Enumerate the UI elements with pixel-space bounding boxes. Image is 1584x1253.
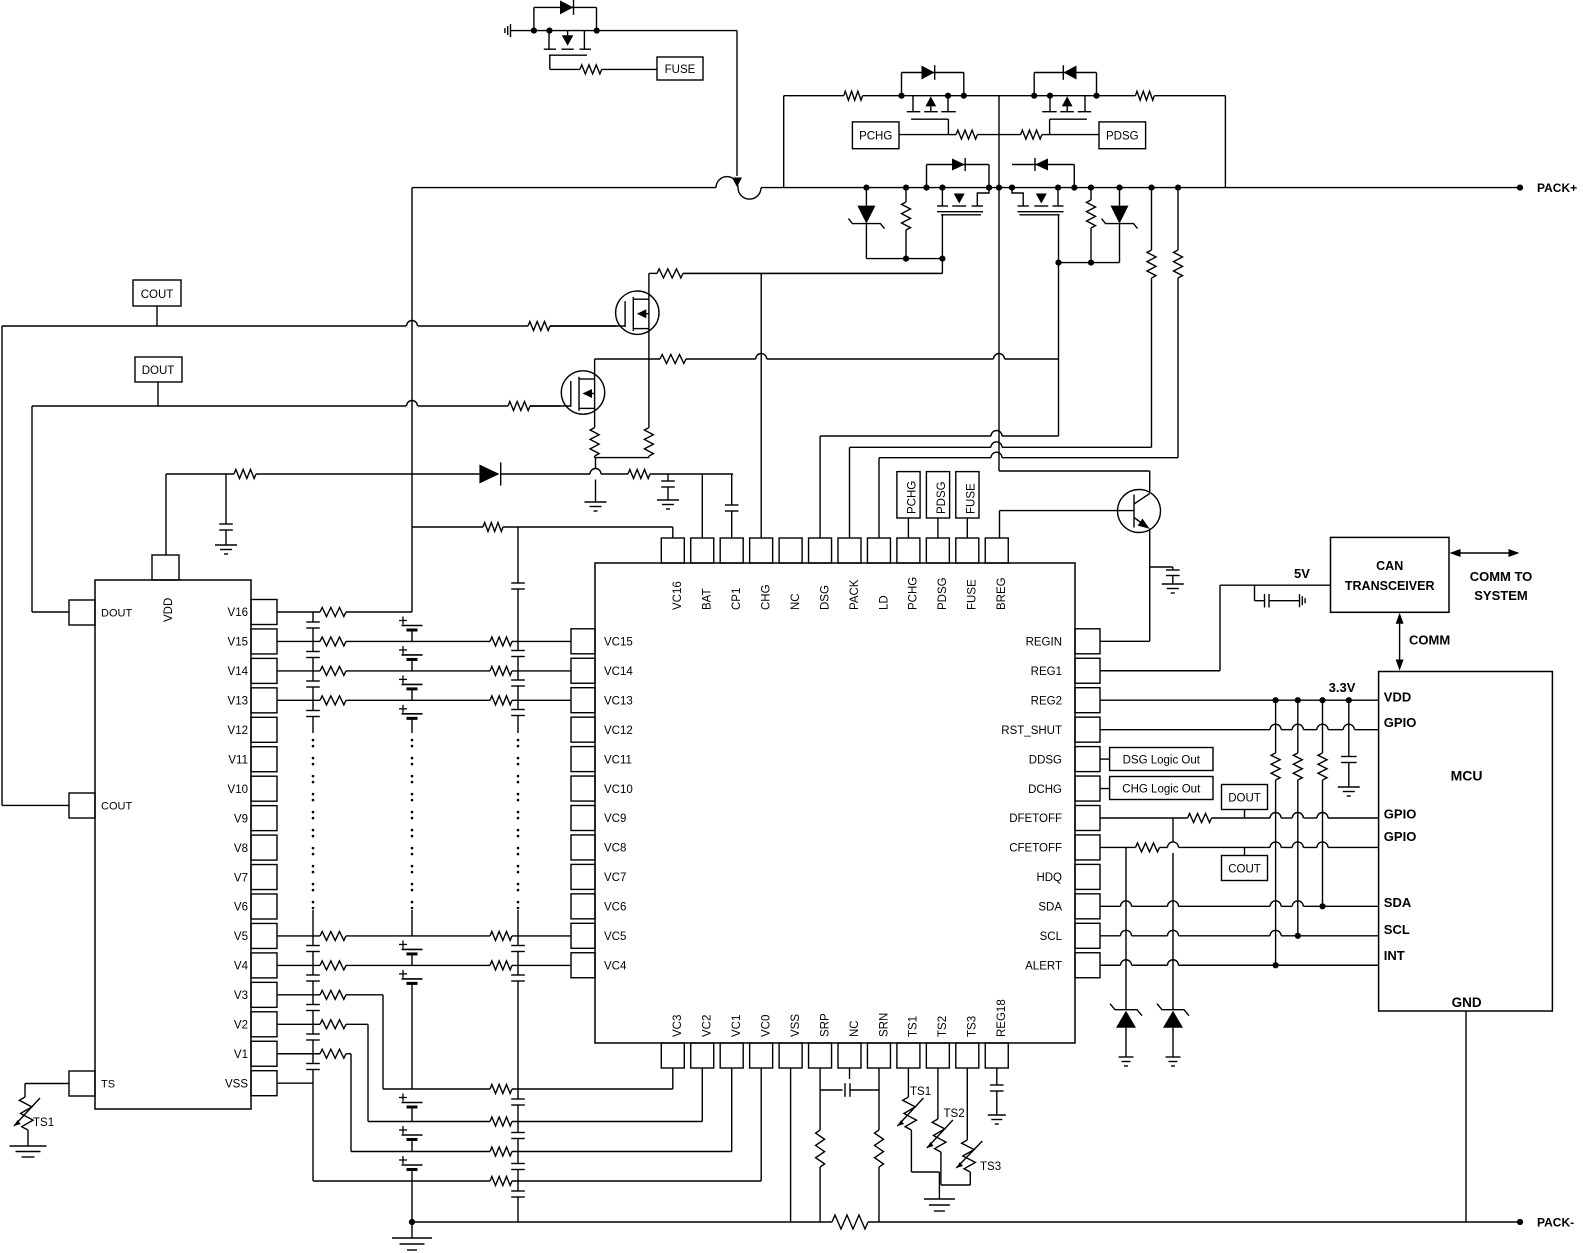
node center rail junction [996, 185, 1002, 191]
svg-text:VSS: VSS [790, 1014, 802, 1037]
resistor R38 SRN filter [875, 1130, 884, 1167]
pin BREG top [985, 538, 1008, 610]
wire RST_SHUT to MCU GPIO [1100, 724, 1379, 729]
diode D1 across fuse FET [534, 0, 597, 31]
svg-text:VC3: VC3 [672, 1015, 684, 1037]
pin VC3 bottom [661, 1015, 684, 1068]
wire BAT pin drop [701, 474, 703, 538]
resistor R29 VC4 [490, 961, 512, 970]
resistor R42 pullup [1318, 700, 1327, 906]
pin V16 left-chip [228, 600, 277, 625]
svg-text:TS1: TS1 [910, 1086, 931, 1098]
svg-text:V5: V5 [234, 931, 248, 943]
svg-text:TS: TS [101, 1079, 115, 1091]
resistor R11 DOUT gate [508, 402, 530, 411]
svg-text:GPIO: GPIO [1384, 829, 1417, 844]
svg-text:PACK: PACK [849, 579, 861, 610]
svg-text:CP1: CP1 [731, 588, 743, 610]
FUSE pin off-page label [956, 472, 979, 538]
CHG Logic Out label [1100, 777, 1213, 800]
svg-text:V9: V9 [234, 813, 248, 825]
pin TS2 bottom [926, 1016, 949, 1068]
diode D6 reverse protect [479, 462, 500, 485]
wire BREG base line [1000, 511, 1135, 538]
wire fuse FET drain to PACK+ rail with arrow [732, 31, 742, 187]
svg-text:PCHG: PCHG [859, 131, 892, 143]
resistor R32 V2 filter [320, 1020, 346, 1029]
wire DOUT line [32, 382, 560, 406]
svg-text:SYSTEM: SYSTEM [1474, 588, 1527, 603]
capacitor C12 VC13-VC12 [511, 700, 525, 733]
resistor R44 CFETOFF [1136, 843, 1160, 852]
capacitor C13 V5-V4 [306, 936, 320, 965]
battery cell B9 [399, 1156, 423, 1222]
wire PDSG gate [1050, 119, 1099, 134]
capacitor C16 V2-V1 [306, 1024, 320, 1053]
wire PACK pin line [850, 442, 1152, 538]
svg-text:REGIN: REGIN [1026, 637, 1062, 649]
capacitor C15 V3-V2 [306, 995, 320, 1024]
svg-text:VC15: VC15 [604, 637, 633, 649]
PDSG pin off-page label [926, 472, 949, 538]
pin DCHG right [1028, 776, 1100, 801]
pin SRN bottom [867, 1013, 890, 1068]
pin NC bottom stub [849, 1068, 851, 1079]
pin V15 left-chip [228, 629, 277, 654]
svg-text:V12: V12 [228, 725, 248, 737]
svg-text:ALERT: ALERT [1025, 960, 1062, 972]
svg-text:COUT: COUT [101, 801, 132, 813]
capacitor C5 V16-V15 [306, 612, 320, 641]
svg-text:V10: V10 [228, 784, 248, 796]
wire DFETOFF to MCU GPIO [1100, 813, 1379, 818]
ground COUT/DOUT source [585, 502, 607, 511]
svg-text:VSS: VSS [225, 1078, 248, 1090]
resistor R8 PACK sense [1147, 185, 1156, 448]
pin V2 left-chip [234, 1012, 277, 1037]
wire V2 line jog [277, 1024, 702, 1121]
ground 5V cap [1300, 594, 1306, 607]
resistor R26 V5 filter [320, 931, 346, 940]
svg-text:TS1: TS1 [908, 1016, 920, 1037]
pin PCHG top [897, 538, 920, 610]
wire V1 line jog [277, 1054, 732, 1152]
svg-text:REG1: REG1 [1031, 666, 1062, 678]
pin DOUT left-chip [69, 600, 132, 625]
wire DSG gate node [1055, 215, 1119, 266]
pin V13 left-chip [228, 688, 277, 713]
ground VDD cap [1338, 787, 1360, 796]
svg-text:MCU: MCU [1451, 768, 1483, 784]
pin REGIN right [1026, 629, 1100, 654]
capacitor C10 VC15-VC14 [511, 641, 525, 670]
pin V7 left-chip [234, 865, 277, 890]
COUT off-page label right [1222, 847, 1268, 880]
svg-text:SDA: SDA [1384, 895, 1412, 910]
ground battery negative [392, 1222, 432, 1250]
svg-text:SCL: SCL [1384, 922, 1410, 937]
svg-text:RST_SHUT: RST_SHUT [1001, 725, 1062, 737]
pin TS left-chip [69, 1071, 115, 1096]
svg-text:CAN: CAN [1376, 559, 1403, 573]
svg-text:VDD: VDD [163, 598, 175, 622]
pin NC bottom [838, 1020, 861, 1068]
svg-text:GND: GND [1452, 995, 1482, 1010]
diode D4 precharge bypass left [923, 158, 992, 191]
svg-text:V4: V4 [234, 961, 249, 973]
resistor R36 VC0 [490, 1177, 512, 1186]
pin VC0 bottom [750, 1015, 773, 1068]
pin PDSG top [926, 538, 949, 610]
capacitor C2 VDD filter [219, 474, 233, 545]
pin TS3 bottom [956, 1016, 979, 1068]
capacitor C9 VC16-VC15 [511, 527, 525, 641]
wire dotted column left [312, 740, 315, 908]
svg-text:VC5: VC5 [604, 931, 626, 943]
PDSG off-page label [1099, 122, 1146, 149]
DOUT off-page label [135, 357, 182, 382]
resistor R25 VC13 [490, 696, 512, 705]
svg-text:GPIO: GPIO [1384, 715, 1417, 730]
pin RST_SHUT right [1001, 717, 1100, 742]
svg-text:COUT: COUT [141, 289, 174, 301]
pin BAT top [691, 538, 714, 610]
pin VC16 top [661, 538, 684, 610]
svg-text:DSG: DSG [819, 585, 831, 610]
svg-text:V15: V15 [228, 637, 248, 649]
pin V10 left-chip [228, 776, 277, 801]
pin VC4 left [571, 953, 627, 978]
pin FUSE top [956, 538, 979, 610]
wire DSG pin line [820, 263, 1058, 538]
resistor R21 V14 filter [320, 666, 346, 675]
battery cell B2 [399, 646, 423, 671]
svg-text:PCHG: PCHG [907, 481, 919, 514]
pin VC1 bottom [720, 1015, 743, 1068]
pin DFETOFF right [1009, 806, 1100, 831]
wire VDD pin drop [165, 474, 167, 555]
resistor R16 VDD [234, 470, 256, 479]
capacitor C17 V1-VSS [306, 1054, 320, 1083]
pin V5 left-chip [234, 923, 277, 948]
wire COUT line [2, 306, 616, 326]
resistor R43 DFETOFF [1188, 814, 1212, 823]
svg-text:V3: V3 [234, 990, 248, 1002]
svg-text:DOUT: DOUT [101, 608, 132, 620]
battery cell B1 [399, 617, 423, 642]
svg-text:TS1: TS1 [33, 1117, 54, 1129]
wire predischarge loop right down to rail [1224, 96, 1226, 188]
svg-text:DOUT: DOUT [1228, 793, 1261, 805]
wire collector from rail [999, 188, 1150, 492]
pin V8 left-chip [234, 835, 277, 860]
svg-text:TRANSCEIVER: TRANSCEIVER [1345, 579, 1435, 593]
svg-text:VC7: VC7 [604, 872, 626, 884]
pin COUT left-chip [69, 793, 132, 818]
pin DSG top [809, 538, 832, 610]
resistor R20 V15 filter [320, 637, 346, 646]
svg-text:V7: V7 [234, 872, 248, 884]
op-amp U2 secondary monitor body [95, 580, 251, 1109]
svg-text:VC6: VC6 [604, 902, 626, 914]
resistor R23 VC15 [490, 637, 512, 646]
svg-text:TS3: TS3 [980, 1161, 1001, 1173]
wire CFETOFF to MCU GPIO [1100, 842, 1379, 848]
svg-text:5V: 5V [1294, 566, 1310, 581]
wire VC16 top branch [412, 527, 673, 538]
wire emitter to REGIN [1100, 529, 1150, 642]
pin CFETOFF right [1009, 835, 1100, 860]
op-amp U1 battery monitor AFE IC body [595, 563, 1075, 1043]
pin DDSG right [1029, 747, 1100, 772]
pin V11 left-chip [228, 747, 277, 772]
wire PACK- rail [1466, 1216, 1574, 1230]
PCHG off-page label [852, 122, 899, 149]
svg-text:PACK-: PACK- [1537, 1216, 1574, 1230]
diode D2 across PCHG FET [902, 65, 964, 96]
ground TS1 thermistor [10, 1146, 47, 1157]
svg-text:DDSG: DDSG [1029, 754, 1062, 766]
capacitor C14 V4-V3 [306, 965, 320, 994]
wire COMM arrow [1396, 613, 1451, 671]
wire PCHG gate [899, 119, 948, 134]
svg-text:VC1: VC1 [731, 1015, 743, 1037]
resistor R17 BAT filter [628, 470, 650, 479]
pin VC14 left [571, 658, 633, 683]
resistor R15 COUT source [644, 428, 653, 456]
ground REG18 cap [988, 1115, 1006, 1124]
resistor R4 PCHG gate to center [948, 130, 999, 139]
resistor R12 COUT drain [657, 269, 683, 278]
battery cell B8 [399, 1126, 423, 1152]
svg-text:VC2: VC2 [702, 1015, 714, 1037]
ground VDD cap [215, 545, 237, 554]
pin PACK top [838, 538, 861, 610]
svg-text:PDSG: PDSG [1106, 131, 1139, 143]
wire cell tap V16 [277, 611, 412, 613]
pin SCL right [1040, 923, 1100, 948]
zener diode Z2 DSG gate clamp [1102, 185, 1138, 263]
capacitor C6 V15-V14 [306, 641, 320, 670]
svg-text:INT: INT [1384, 948, 1405, 963]
svg-text:SRP: SRP [819, 1013, 831, 1037]
wire stack V5 region [411, 910, 413, 936]
capacitor C3 BAT filter [661, 474, 675, 500]
transistor Q3 PDSG FET [1031, 93, 1100, 120]
wire TS pin line [25, 1084, 69, 1098]
svg-text:SCL: SCL [1040, 931, 1063, 943]
resistor R40 pullup [1271, 700, 1280, 965]
pin LD top [867, 538, 890, 610]
svg-text:V13: V13 [228, 696, 248, 708]
svg-text:TS3: TS3 [967, 1016, 979, 1037]
resistor R31 VC3 [490, 1085, 512, 1094]
wire source join to ground [595, 456, 649, 502]
svg-text:FUSE: FUSE [967, 579, 979, 610]
node stack bottom [409, 1219, 415, 1225]
svg-text:VDD: VDD [1384, 690, 1411, 705]
wire VC15 tap right [412, 640, 571, 642]
battery cell B4 [399, 705, 423, 733]
FUSE off-page label [657, 57, 703, 80]
svg-text:LD: LD [878, 595, 890, 610]
battery cell B5 [399, 940, 423, 965]
transistor Q1 fuse-blow FET [544, 31, 591, 56]
PCHG pin off-page label [897, 472, 920, 538]
ground zener Z3 [1119, 1057, 1134, 1066]
wire MCU GND to rail [1465, 1011, 1467, 1222]
pin VSS left-chip [225, 1071, 277, 1096]
resistor R37 SRP filter [816, 1130, 825, 1167]
thermistor TS1 left-chip [14, 1097, 54, 1146]
wire LD pin line [879, 452, 1178, 538]
pin V1 left-chip [234, 1041, 277, 1066]
resistor R14 DOUT source [590, 428, 599, 456]
pin SRP bottom [809, 1013, 832, 1068]
wire cell tap V15 [277, 640, 412, 642]
zener diode Z3 CFETOFF clamp [1110, 1004, 1142, 1057]
svg-text:REG2: REG2 [1031, 695, 1062, 707]
thermistor TS3 [939, 1068, 1001, 1185]
CAN transceiver U3 [1331, 537, 1450, 612]
wire VSS pin to rail [790, 1068, 792, 1222]
wire CHG pin vertical [760, 273, 762, 538]
svg-text:VC4: VC4 [604, 960, 627, 972]
svg-text:V2: V2 [234, 1020, 248, 1032]
capacitor C23 VC0-VSS [511, 1181, 525, 1222]
svg-text:VC12: VC12 [604, 725, 633, 737]
resistor R3 predischarge right [1135, 91, 1154, 100]
battery cell B6 [399, 970, 423, 1089]
junction dots fuse FET node [531, 28, 600, 34]
pin VC9 left [571, 806, 626, 831]
svg-text:TS2: TS2 [937, 1016, 949, 1037]
wire fuse-FET top node [534, 30, 737, 32]
capacitor C22 VC1-VC0 [511, 1152, 525, 1182]
svg-text:CHG Logic Out: CHG Logic Out [1122, 784, 1201, 796]
svg-text:VC0: VC0 [760, 1015, 772, 1037]
battery cell B3 [399, 675, 423, 700]
pin VC2 bottom [691, 1015, 714, 1068]
wire VC14 tap right [412, 670, 571, 672]
pin V4 left-chip [234, 953, 277, 978]
capacitor C11 VC14-VC13 [511, 671, 525, 700]
wire COMM TO SYSTEM arrow [1450, 549, 1533, 603]
svg-text:CHG: CHG [760, 584, 772, 610]
pin ALERT right [1025, 953, 1100, 978]
wire VC13 tap right [412, 699, 571, 701]
wire DOUT FET drain to DSG net [595, 354, 1059, 360]
resistor R13 DOUT drain [660, 355, 686, 364]
ground REGIN cap [1162, 584, 1184, 593]
wire CFETOFF zener drop [1125, 847, 1127, 1009]
pin V12 left-chip [228, 717, 277, 742]
svg-text:VC16: VC16 [672, 581, 684, 610]
svg-text:V8: V8 [234, 843, 248, 855]
thermistor TS1 [897, 1068, 939, 1172]
battery cell B7 [399, 1094, 423, 1122]
wire REG1 to 5V [1100, 566, 1331, 671]
wire DFETOFF zener drop [1172, 818, 1174, 1010]
resistor R35 VC1 [490, 1147, 512, 1156]
resistor R10 COUT gate [528, 322, 550, 331]
resistor R22 V13 filter [320, 696, 346, 705]
capacitor C21 VC2-VC1 [511, 1122, 525, 1152]
wire precharge loop left down to rail [783, 96, 785, 188]
capacitor C25 REG18 [990, 1068, 1004, 1115]
ground thermistor network [924, 1185, 955, 1211]
wire SRN pin [878, 1068, 880, 1222]
pin VC6 left [571, 894, 626, 919]
svg-text:DSG Logic Out: DSG Logic Out [1123, 755, 1201, 767]
resistor R24 VC14 [490, 666, 512, 675]
resistor R33 VC2 [490, 1117, 512, 1126]
pin V9 left-chip [234, 806, 277, 831]
pin VDD left-chip top [152, 555, 179, 622]
svg-text:NC: NC [790, 593, 802, 610]
pin VC15 left [571, 629, 633, 654]
svg-text:VC14: VC14 [604, 666, 633, 678]
resistor R1 fuse FET gate [550, 55, 657, 74]
transistor Q5 DSG FET [1009, 185, 1064, 215]
resistor R6 CHG gate pulldown [902, 185, 911, 262]
svg-text:V6: V6 [234, 902, 248, 914]
svg-text:VC10: VC10 [604, 784, 633, 796]
wire COUT left loop [2, 326, 69, 805]
wire dotted column right [517, 740, 520, 908]
svg-text:SRN: SRN [878, 1013, 890, 1037]
transistor Q8 DOUT high-side FET [530, 359, 605, 428]
pin REG18 bottom [985, 999, 1008, 1068]
svg-text:CFETOFF: CFETOFF [1009, 843, 1062, 855]
pin VC13 left [571, 688, 633, 713]
ground zener Z4 [1166, 1057, 1181, 1066]
svg-text:DOUT: DOUT [142, 365, 175, 377]
pin TS1 bottom [897, 1016, 920, 1068]
pin VC10 left [571, 776, 633, 801]
wire V5 line [277, 935, 571, 937]
wire VSS line jog [277, 1068, 761, 1181]
pin VC8 left [571, 835, 626, 860]
wire SCL to MCU [1100, 930, 1379, 939]
pin HDQ right [1036, 864, 1100, 889]
resistor R7 DSG gate pulldown [1087, 185, 1096, 263]
resistor R9 LD sense [1174, 185, 1183, 458]
capacitor C1 REGIN bypass [1150, 567, 1180, 584]
wire CHG gate node [683, 215, 946, 274]
wire center vertical to rail [998, 96, 1000, 188]
svg-text:BAT: BAT [702, 588, 714, 610]
svg-text:COUT: COUT [1228, 864, 1261, 876]
node VDD taps [1273, 697, 1352, 703]
svg-text:COMM: COMM [1409, 633, 1450, 648]
resistor R27 VC5 [490, 931, 512, 940]
pin CHG top [750, 538, 773, 610]
resistor R39 current shunt [412, 1215, 1466, 1229]
pin CP1 top [720, 538, 743, 610]
svg-text:PACK+: PACK+ [1537, 181, 1577, 195]
transistor Q4 CHG FET [937, 185, 989, 215]
svg-text:DCHG: DCHG [1028, 784, 1062, 796]
resistor R19 V16 filter [320, 608, 346, 617]
svg-text:TS2: TS2 [944, 1108, 965, 1120]
wire ALERT to MCU INT [1100, 960, 1379, 969]
pin REG2 right [1031, 688, 1100, 713]
wire dotted column stack [411, 740, 414, 908]
transistor Q2 PCHG FET [898, 93, 967, 120]
svg-text:GPIO: GPIO [1384, 807, 1417, 822]
pin REG1 right [1031, 658, 1100, 683]
